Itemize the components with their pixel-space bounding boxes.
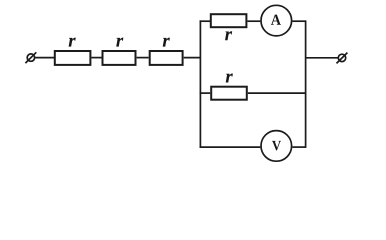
resistor R2 <box>103 51 136 65</box>
voltmeter U2 (circle) <box>261 131 292 162</box>
wire: ammeter to right bus <box>292 20 306 22</box>
label r (R1) <box>69 38 76 47</box>
label r (R4) <box>225 31 232 40</box>
resistor R1 <box>55 51 91 65</box>
wire: left terminal to R1 <box>35 57 55 59</box>
resistor R3 <box>150 51 183 65</box>
terminal TL (left input, circle-slash) <box>25 52 36 63</box>
wire: right bus (vertical) <box>305 20 307 147</box>
ammeter U1 (circle) <box>261 5 292 36</box>
wire: bottom branch, bus to voltmeter <box>200 146 261 148</box>
resistor R5 (middle branch) <box>211 87 247 100</box>
wire: R2 to R3 <box>137 57 149 59</box>
resistor R4 (top branch) <box>211 14 247 27</box>
label r (R3) <box>163 38 170 47</box>
label r (R5) <box>226 74 233 83</box>
wire: R3 to node A (left bus) <box>184 57 201 59</box>
label V (voltmeter) <box>272 141 281 151</box>
wire: R5 to right bus <box>248 92 306 94</box>
label A (ammeter) <box>271 15 281 25</box>
wire: middle branch, bus to R5 <box>200 92 211 94</box>
wire: R1 to R2 <box>91 57 101 59</box>
wire: top branch, bus to R4 <box>200 20 210 22</box>
wire: voltmeter to right bus <box>292 146 306 148</box>
wire: left bus (vertical) <box>199 20 201 147</box>
terminal TR (right output, circle-slash) <box>337 53 348 64</box>
wire: right bus to right terminal <box>306 57 339 59</box>
label r (R2) <box>116 38 123 47</box>
wire: R4 to ammeter <box>247 20 260 22</box>
